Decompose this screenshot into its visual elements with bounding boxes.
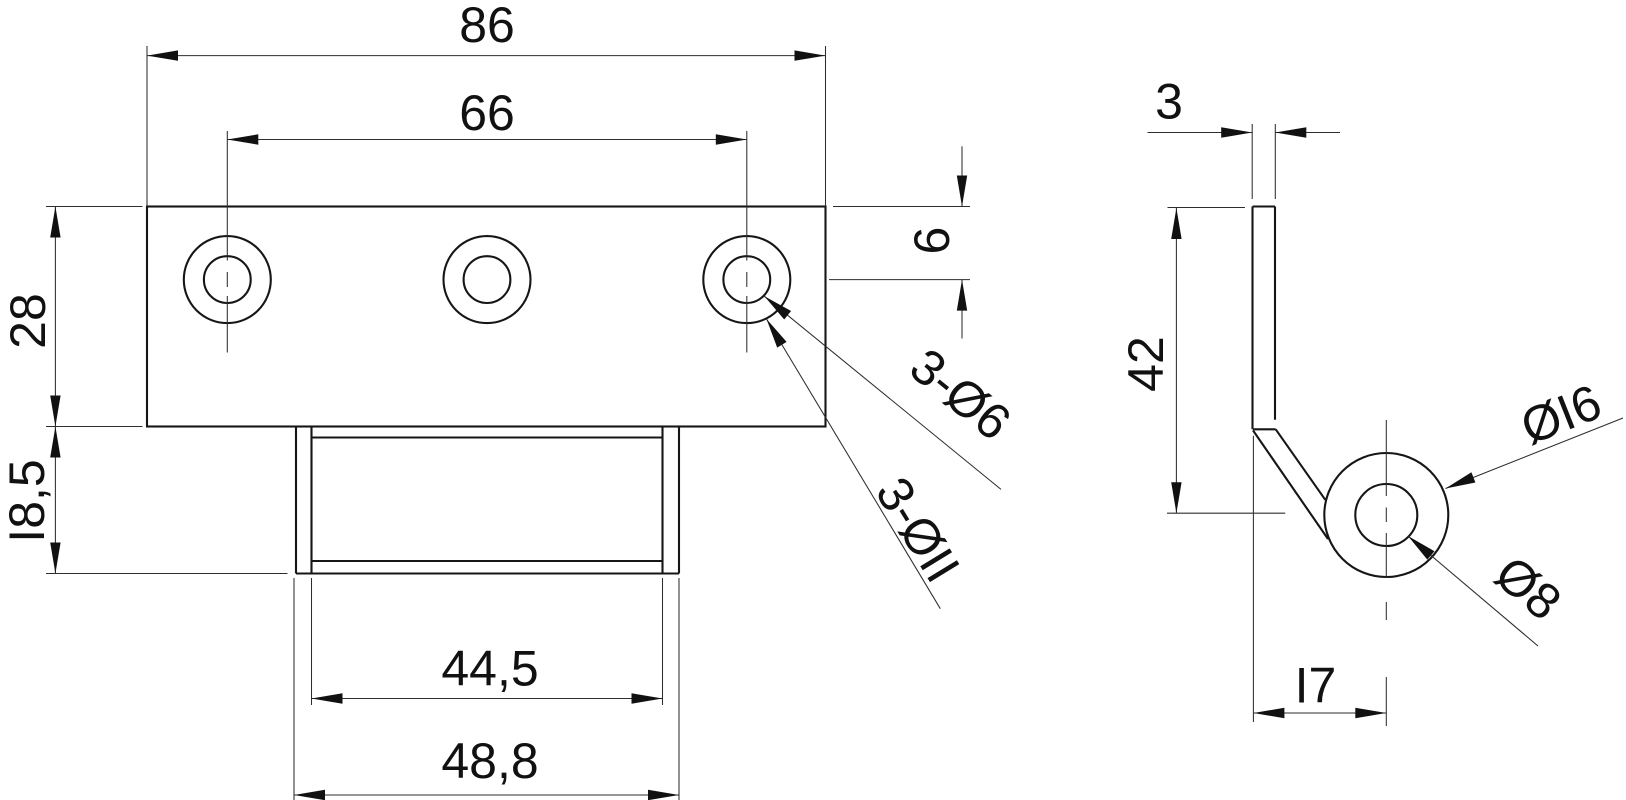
dim 6 arrow top	[957, 176, 967, 207]
svg-text:48,8: 48,8	[441, 733, 538, 789]
hole 1 bore Ø6	[204, 256, 251, 303]
dim 42 arrow top	[1171, 208, 1181, 239]
bottom tab outer wall right	[678, 427, 680, 574]
dim 86 arrow right	[795, 50, 826, 60]
dim 6 extension top	[833, 206, 970, 208]
dim 44,5 extension left	[311, 578, 313, 705]
leader Ø16 arrow	[1446, 472, 1476, 488]
dim 3 line right	[1275, 132, 1340, 134]
front view: plate outline	[147, 207, 826, 427]
hole 3 countersink Ø11	[703, 236, 790, 323]
hole 2 countersink Ø11	[444, 236, 531, 323]
svg-text:42: 42	[1118, 336, 1174, 392]
dim 44,5 arrow left	[312, 693, 343, 703]
hole 1 countersink Ø11	[184, 236, 271, 323]
dim 6 extension bottom	[829, 279, 970, 281]
dim 86 extension line left	[146, 46, 148, 207]
leader 3-Ø6 line	[764, 296, 1001, 489]
side view: plate outer face	[1251, 207, 1253, 430]
bottom tab inner top edge	[312, 436, 663, 438]
side view: angled strip inner edge	[1276, 429, 1326, 500]
svg-text:I7: I7	[1295, 658, 1337, 714]
dim 17 arrow right	[1355, 708, 1386, 718]
svg-text:3-Ø6: 3-Ø6	[900, 337, 1022, 451]
svg-text:44,5: 44,5	[441, 641, 538, 697]
dim 86 line	[147, 55, 826, 57]
leader Ø8 line	[1408, 536, 1538, 646]
svg-text:3: 3	[1155, 74, 1183, 130]
dim 66 line	[227, 139, 747, 141]
dim 28 arrow top	[50, 207, 60, 238]
svg-text:6: 6	[904, 227, 960, 255]
svg-text:66: 66	[459, 85, 515, 141]
leader 3-Ø6 arrow	[764, 296, 791, 319]
dim 48,8 extension left	[293, 578, 295, 800]
bottom tab outer bottom edge	[296, 572, 679, 574]
leader Ø16 line	[1446, 418, 1624, 489]
hole 2 bore Ø6	[464, 256, 511, 303]
side view: plate inner face	[1274, 207, 1276, 420]
dim 86 arrow left	[147, 50, 178, 60]
dim 3 extension right	[1274, 124, 1276, 199]
dim 66 arrow left	[227, 134, 258, 144]
side view: angled strip outer edge	[1253, 430, 1328, 539]
leader 3-Ø11 arrow	[767, 319, 787, 348]
side view: bend line	[1253, 428, 1276, 430]
svg-text:I8,5: I8,5	[0, 459, 55, 542]
dim 18,5 arrow bottom	[50, 543, 60, 574]
hole 3 center line	[746, 131, 748, 353]
leader Ø8 arrow	[1408, 536, 1435, 560]
knuckle bore Ø8	[1355, 484, 1417, 546]
dim 6 line top	[961, 146, 963, 206]
knuckle vertical center line	[1385, 420, 1387, 726]
bottom tab inner wall left	[310, 427, 312, 574]
dim 28 arrow bottom	[50, 396, 60, 427]
dim 28 extension top	[46, 206, 143, 208]
svg-text:86: 86	[459, 0, 515, 53]
dim 44,5 line	[312, 698, 663, 700]
dim 48,8 arrow right	[648, 790, 679, 800]
bottom tab outer wall left	[295, 427, 297, 574]
svg-text:3-ØII: 3-ØII	[865, 468, 971, 592]
dim 17 arrow left	[1253, 708, 1284, 718]
dim 17 line	[1253, 712, 1386, 714]
dim 18,5 arrow top	[50, 427, 60, 458]
dim 42 extension top	[1168, 207, 1246, 209]
dim 48,8 line	[294, 794, 679, 796]
dim 44,5 arrow right	[632, 693, 663, 703]
dim 86 extension line right	[825, 46, 827, 207]
dim 6 line bottom	[961, 280, 963, 339]
dim 42 extension bottom / horizontal center line	[1167, 512, 1285, 514]
hole 1 center line	[226, 131, 228, 353]
dim 3 extension left	[1251, 124, 1253, 199]
dim 42 line	[1175, 208, 1177, 513]
dim 28 extension bottom	[46, 426, 143, 428]
dim 3 arrow right	[1275, 127, 1306, 137]
svg-text:ØI6: ØI6	[1513, 374, 1609, 456]
side view: plate top cap	[1253, 205, 1276, 207]
dim 28 line	[54, 207, 56, 427]
dim 66 arrow right	[716, 134, 747, 144]
dim 18,5 extension bottom	[46, 573, 288, 575]
dim 17 extension left	[1252, 436, 1254, 722]
dim 18,5 line	[54, 427, 56, 574]
dim 6 arrow bottom	[957, 280, 967, 311]
dim 3 arrow left	[1221, 127, 1252, 137]
bottom tab inner wall right	[661, 427, 663, 574]
leader 3-Ø11 line	[767, 319, 941, 609]
knuckle outer circle Ø16	[1324, 453, 1448, 577]
hole 3 bore Ø6	[723, 256, 770, 303]
dim 42 arrow bottom	[1171, 482, 1181, 513]
bottom tab inner bottom edge	[312, 560, 663, 562]
dim 48,8 arrow left	[294, 790, 325, 800]
svg-text:28: 28	[0, 293, 56, 349]
dim 48,8 extension right	[678, 578, 680, 800]
dim 44,5 extension right	[662, 578, 664, 705]
dim 3 line left	[1148, 132, 1253, 134]
svg-text:Ø8: Ø8	[1485, 545, 1572, 631]
